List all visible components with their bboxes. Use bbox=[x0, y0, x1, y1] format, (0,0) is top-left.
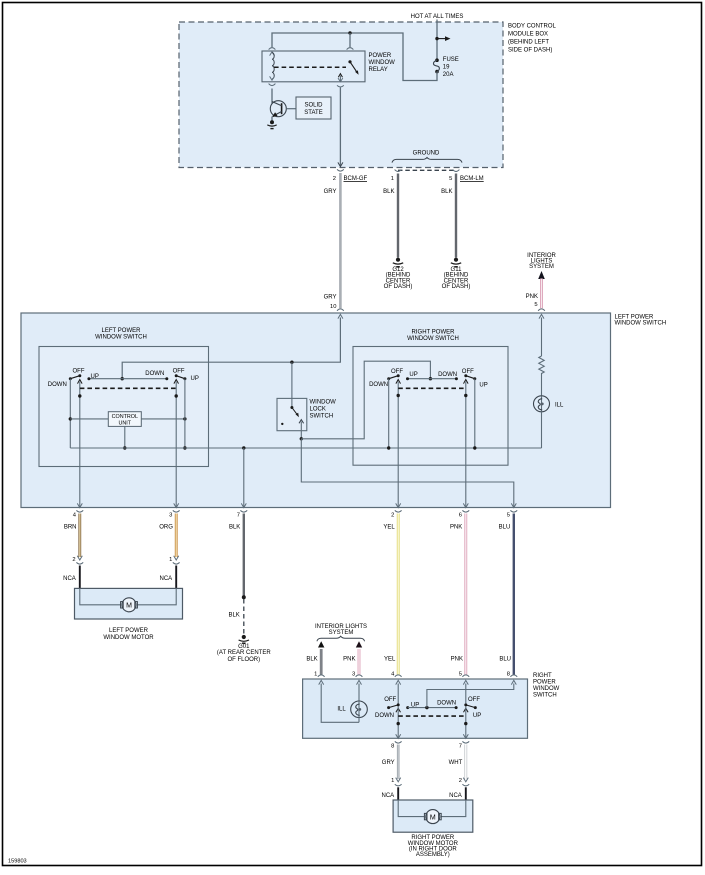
svg-text:1: 1 bbox=[314, 671, 317, 677]
relay coil top connector bbox=[269, 48, 276, 50]
pin 1 entry connector bbox=[318, 675, 325, 677]
label: POWER WINDOW RELAY bbox=[369, 53, 396, 73]
left sub-box: top contact wire UP(L1) to DOWN(L2) bbox=[89, 378, 167, 380]
wire BLK to G11 bbox=[455, 174, 457, 258]
wire NCA to motor bbox=[397, 787, 399, 816]
svg-text:OF DASH): OF DASH) bbox=[384, 284, 413, 290]
svg-text:WINDOW MOTOR: WINDOW MOTOR bbox=[103, 635, 154, 641]
svg-text:DOWN: DOWN bbox=[48, 382, 67, 388]
svg-text:OFF: OFF bbox=[384, 697, 396, 703]
left power window switch assembly box bbox=[21, 313, 611, 508]
svg-text:BLK: BLK bbox=[306, 656, 317, 662]
right sub-box: top contact wire UP(R1) to DOWN(R2) bbox=[408, 378, 457, 380]
svg-text:POWER: POWER bbox=[533, 679, 556, 685]
svg-text:5: 5 bbox=[534, 302, 537, 308]
svg-text:NCA: NCA bbox=[63, 576, 76, 582]
wire BRN pin 4 to left motor pin 2 bbox=[78, 514, 81, 558]
relay mechanical link (dashed) bbox=[274, 66, 346, 68]
svg-text:UP: UP bbox=[191, 376, 199, 382]
svg-text:19: 19 bbox=[443, 65, 450, 71]
svg-text:6: 6 bbox=[459, 512, 462, 518]
junction dot on B-switch top wire bbox=[425, 706, 428, 709]
junction dot below window lock switch bbox=[300, 437, 303, 440]
connector name BCM-GF bbox=[344, 176, 368, 182]
label: FUSE 19 20A bbox=[443, 57, 459, 78]
svg-text:BCM-LM: BCM-LM bbox=[460, 176, 484, 182]
label: LEFT POWER WINDOW SWITCH (sub-box) bbox=[95, 328, 147, 341]
control unit rail left bbox=[70, 418, 108, 420]
wire junction to window lock switch common bbox=[291, 362, 293, 407]
pin 5 entry connector bbox=[462, 675, 469, 677]
wire from fuse to relay top bus bbox=[272, 33, 437, 81]
control unit box bbox=[108, 412, 141, 427]
relay coil bbox=[272, 53, 274, 79]
svg-text:SYSTEM: SYSTEM bbox=[529, 264, 554, 270]
dashed wire segment to G01 bbox=[243, 599, 245, 635]
arrow up PNK to interior lights bbox=[356, 641, 362, 647]
wire pin 1 to lamp return bbox=[321, 684, 359, 723]
svg-text:LEFT POWER: LEFT POWER bbox=[102, 328, 142, 334]
svg-text:OF DASH): OF DASH) bbox=[442, 284, 471, 290]
illumination lamp ILL bbox=[534, 396, 550, 412]
svg-text:G01: G01 bbox=[238, 644, 250, 650]
window lock switch contact and lever bbox=[281, 406, 304, 439]
wire BLK pin 7 to G01 bbox=[243, 514, 245, 597]
svg-text:WINDOW SWITCH: WINDOW SWITCH bbox=[95, 335, 147, 341]
svg-text:PNK: PNK bbox=[526, 294, 538, 300]
svg-text:5: 5 bbox=[449, 176, 452, 182]
svg-text:2: 2 bbox=[459, 778, 462, 784]
svg-text:BODY CONTROL: BODY CONTROL bbox=[508, 24, 557, 30]
power window relay box bbox=[262, 51, 365, 82]
pin 5 exit connector bbox=[511, 503, 516, 507]
BCM ground pins internal dashed bus bbox=[398, 169, 456, 171]
junction dot below B2 common bbox=[464, 722, 467, 725]
svg-text:PNK: PNK bbox=[450, 524, 462, 530]
svg-text:DOWN: DOWN bbox=[145, 371, 164, 377]
svg-text:RIGHT: RIGHT bbox=[533, 673, 552, 679]
svg-text:NCA: NCA bbox=[382, 793, 395, 799]
wire relay common to BCM pin 2 bbox=[339, 88, 341, 167]
svg-text:MODULE BOX: MODULE BOX bbox=[508, 32, 548, 38]
switch L1 (driver left window, left half) bbox=[69, 374, 91, 507]
svg-text:PNK: PNK bbox=[343, 656, 355, 662]
svg-text:GRY: GRY bbox=[324, 295, 337, 301]
svg-text:(BEHIND LEFT: (BEHIND LEFT bbox=[508, 40, 549, 46]
svg-text:BLK: BLK bbox=[441, 189, 452, 195]
pin 10 entry connector at assembly top bbox=[337, 309, 344, 311]
relay switch top contact bbox=[348, 60, 351, 63]
svg-text:YEL: YEL bbox=[383, 524, 395, 530]
junction dot below L1 common bbox=[78, 394, 81, 397]
label: BODY CONTROL MODULE BOX (BEHIND LEFT SIDE OF DASH) bbox=[508, 24, 557, 54]
svg-text:OFF: OFF bbox=[391, 369, 403, 375]
switch B1 (right door, left half) bbox=[387, 703, 409, 738]
wire WHT pin 7 to motor pin 2 bbox=[464, 745, 467, 780]
ground G11 (behind center of dash) bbox=[451, 258, 461, 267]
pin 5 entry connector at assembly top bbox=[538, 309, 545, 311]
motor pin 1 connector bbox=[396, 778, 401, 782]
svg-text:7: 7 bbox=[237, 512, 240, 518]
right power window switch sub-box bbox=[353, 347, 508, 466]
junction dot below R1 common bbox=[397, 394, 400, 397]
ground (internal, BCM) bbox=[267, 120, 276, 128]
svg-text:GRY: GRY bbox=[324, 189, 337, 195]
svg-text:PNK: PNK bbox=[451, 656, 463, 662]
labels switch R1 bbox=[369, 369, 418, 388]
svg-text:5: 5 bbox=[459, 671, 462, 677]
svg-text:LOCK: LOCK bbox=[310, 407, 326, 413]
relay common exit connector at relay box bottom bbox=[338, 78, 343, 82]
motor internal wiring bbox=[80, 588, 176, 604]
svg-text:YEL: YEL bbox=[384, 656, 396, 662]
svg-text:1: 1 bbox=[391, 778, 394, 784]
mechanical link R1-R2 (dashed) bbox=[398, 387, 466, 389]
wire PNK interior lights to pin 3 bbox=[358, 649, 361, 675]
wire UP(R2) contact down to bottom rail bbox=[474, 379, 476, 448]
label: LEFT POWER WINDOW SWITCH (assembly, right side) bbox=[615, 315, 667, 327]
svg-text:WINDOW: WINDOW bbox=[310, 400, 337, 406]
svg-text:10: 10 bbox=[330, 304, 336, 310]
labels switch B2 bbox=[437, 697, 481, 719]
wire UP(L2) contact down to bottom rail bbox=[184, 379, 186, 448]
control unit bottom wire bbox=[124, 426, 126, 448]
illumination resistor bbox=[539, 318, 544, 396]
svg-text:UNIT: UNIT bbox=[119, 421, 132, 427]
pin 8 exit connector (bottom) bbox=[396, 734, 401, 738]
svg-text:BLK: BLK bbox=[383, 189, 394, 195]
relay switch lever (open, angled right) bbox=[350, 62, 357, 73]
relay switch top entry connector bbox=[347, 48, 354, 50]
transistor Q (solid state driver) bbox=[270, 101, 296, 118]
wire lock switch to right sub-box feed bbox=[301, 361, 430, 439]
svg-text:LEFT POWER: LEFT POWER bbox=[109, 628, 149, 634]
labels switch L2 bbox=[145, 369, 199, 383]
junction dot UP(L2) at bottom rail bbox=[183, 446, 186, 449]
pin 2 exit connector bbox=[396, 503, 401, 507]
svg-text:NCA: NCA bbox=[449, 793, 462, 799]
svg-text:5: 5 bbox=[507, 512, 510, 518]
relay coil bottom connector bbox=[270, 76, 275, 80]
svg-text:ASSEMBLY): ASSEMBLY) bbox=[416, 852, 450, 858]
svg-text:UP: UP bbox=[479, 383, 487, 389]
label: RIGHT POWER WINDOW MOTOR (IN RIGHT DOOR ASSEMBLY) bbox=[408, 835, 459, 858]
right power window motor box bbox=[393, 800, 473, 832]
svg-text:RELAY: RELAY bbox=[369, 67, 388, 73]
wire NCA to motor bbox=[465, 787, 467, 816]
pin 7 exit connector (bottom) bbox=[463, 734, 468, 738]
svg-text:1: 1 bbox=[391, 176, 394, 182]
svg-text:159803: 159803 bbox=[8, 859, 27, 865]
svg-text:DOWN: DOWN bbox=[369, 382, 388, 388]
svg-text:8: 8 bbox=[391, 743, 394, 749]
window lock switch box bbox=[277, 398, 307, 430]
pin 3 entry connector bbox=[356, 675, 363, 677]
wire from pin 10 to left switch feed bbox=[122, 318, 340, 379]
svg-text:SIDE OF DASH): SIDE OF DASH) bbox=[508, 48, 552, 54]
wire lock switch down to pin 5 exit bbox=[301, 439, 514, 508]
svg-text:BLU: BLU bbox=[499, 656, 511, 662]
wire PNK pin 6 to right switch pin 5 bbox=[464, 514, 467, 675]
svg-text:8: 8 bbox=[507, 671, 510, 677]
label: WINDOW LOCK SWITCH bbox=[310, 400, 337, 420]
svg-text:WINDOW: WINDOW bbox=[533, 686, 560, 692]
wire GRY pin 8 to motor pin 1 bbox=[397, 745, 400, 780]
pin 8 entry connector bbox=[510, 675, 517, 677]
wire transistor emitter to ground bbox=[271, 117, 273, 122]
wire pin 3 to lamp bbox=[358, 684, 360, 702]
wire lamp bottom to return bbox=[358, 718, 360, 723]
svg-text:RIGHT POWER: RIGHT POWER bbox=[412, 330, 456, 336]
wire rail to pin 7 exit bbox=[243, 448, 245, 508]
svg-text:OFF: OFF bbox=[462, 369, 474, 375]
labels switch R2 bbox=[438, 369, 488, 389]
svg-text:FUSE: FUSE bbox=[443, 57, 459, 63]
body control module box (dashed) bbox=[179, 22, 503, 168]
wire BLK interior lights to pin 1 bbox=[320, 649, 323, 675]
top contact wire UP(B1) to DOWN(B2) bbox=[408, 707, 456, 709]
junction dot below B1 common bbox=[397, 722, 400, 725]
wire relay coil bottom to transistor bbox=[271, 89, 273, 104]
label: RIGHT POWER WINDOW SWITCH bbox=[533, 673, 560, 699]
switch R1 (passenger window, left half) bbox=[387, 374, 409, 507]
wire pin 8 feed to top wire bbox=[427, 684, 514, 708]
left power window motor box bbox=[75, 588, 183, 619]
pin 6 exit connector bbox=[463, 503, 468, 507]
svg-text:BCM-GF: BCM-GF bbox=[344, 176, 368, 182]
svg-text:20A: 20A bbox=[443, 72, 454, 78]
junction dot rail to pin 7 bbox=[242, 446, 245, 449]
svg-text:M: M bbox=[430, 814, 436, 821]
arrow up BLK to interior lights bbox=[318, 641, 324, 647]
switch B2 (right door, right half) bbox=[455, 703, 477, 738]
labels switch B1 bbox=[375, 697, 419, 719]
solid state box bbox=[296, 97, 331, 119]
motor M symbol bbox=[424, 810, 441, 824]
svg-text:UP: UP bbox=[91, 374, 99, 380]
junction dot below R2 common bbox=[464, 394, 467, 397]
mechanical link B1-B2 (dashed) bbox=[398, 715, 466, 717]
svg-text:GROUND: GROUND bbox=[413, 151, 440, 157]
wire BLK to G12 bbox=[397, 174, 399, 258]
svg-text:SYSTEM: SYSTEM bbox=[329, 630, 354, 636]
junction dot above relay switch bbox=[348, 31, 351, 34]
common bottom rail wire bbox=[70, 447, 541, 449]
BCM pin 2 exit connector (BCM-GF) bbox=[338, 162, 343, 166]
junction dot below L2 common bbox=[175, 394, 178, 397]
motor pin 2 connector bbox=[77, 556, 82, 560]
svg-text:M: M bbox=[126, 603, 132, 610]
svg-text:OFF: OFF bbox=[468, 697, 480, 703]
junction dot on left switch top wire bbox=[121, 377, 124, 380]
svg-text:1: 1 bbox=[169, 557, 172, 563]
junction dot DOWN(R1) at bottom rail bbox=[387, 446, 390, 449]
label: RIGHT POWER WINDOW SWITCH (sub-box) bbox=[407, 330, 459, 342]
wire YEL pin 2 to right switch pin 4 bbox=[397, 514, 400, 675]
svg-text:ORG: ORG bbox=[159, 524, 173, 530]
label: LEFT POWER WINDOW MOTOR bbox=[103, 628, 154, 641]
switch R2 (passenger window, right half) bbox=[455, 374, 476, 507]
svg-text:OFF: OFF bbox=[73, 369, 85, 375]
pin 4 exit connector bbox=[77, 503, 82, 507]
svg-text:UP: UP bbox=[409, 372, 417, 378]
wire pin 5 into box bbox=[465, 684, 467, 704]
svg-text:WINDOW SWITCH: WINDOW SWITCH bbox=[407, 336, 459, 342]
junction dot left rail / control rail bbox=[69, 417, 72, 420]
svg-text:2: 2 bbox=[391, 512, 394, 518]
svg-text:SOLID: SOLID bbox=[304, 103, 323, 109]
relay switch common with up arrow bbox=[338, 74, 342, 78]
svg-text:DOWN: DOWN bbox=[438, 372, 457, 378]
pin 4 entry connector bbox=[395, 675, 402, 677]
arrow to interior lights system bbox=[538, 271, 545, 279]
svg-text:BLU: BLU bbox=[499, 524, 511, 530]
wire NCA to motor bbox=[79, 566, 81, 605]
svg-text:OFF: OFF bbox=[173, 369, 185, 375]
svg-text:WINDOW SWITCH: WINDOW SWITCH bbox=[615, 321, 667, 327]
svg-text:SWITCH: SWITCH bbox=[310, 414, 334, 420]
motor M symbol bbox=[121, 598, 138, 612]
pin 7 exit connector bbox=[241, 503, 246, 507]
BCM pin 5 connector (BCM-LM) bbox=[453, 170, 460, 172]
wire lamp to bottom rail bbox=[541, 412, 543, 448]
svg-text:GRY: GRY bbox=[382, 760, 395, 766]
junction dot on hot feed bbox=[435, 37, 438, 40]
fuse 19 20A bbox=[433, 58, 439, 73]
svg-text:POWER: POWER bbox=[369, 53, 392, 59]
wire pin 4 to switch B1 bbox=[397, 684, 399, 705]
svg-text:CONTROL: CONTROL bbox=[112, 414, 138, 420]
brace over interior lights wires bbox=[317, 636, 365, 641]
wire PNK to switch pin 5 bbox=[540, 279, 543, 309]
label: INTERIOR LIGHTS SYSTEM bbox=[315, 624, 367, 636]
junction dot right rail / control rail bbox=[183, 417, 186, 420]
junction dot to window lock switch bbox=[290, 361, 293, 364]
svg-text:3: 3 bbox=[352, 671, 355, 677]
control unit rail right bbox=[141, 418, 185, 420]
wire BLU pin 5 to right switch pin 8 bbox=[513, 514, 515, 675]
wire GRY from BCM pin 2 to switch pin 10 bbox=[339, 173, 342, 308]
svg-text:DOWN: DOWN bbox=[437, 700, 456, 706]
wire ORG pin 3 to left motor pin 1 bbox=[175, 514, 178, 558]
svg-text:2: 2 bbox=[72, 557, 75, 563]
label: CONTROL UNIT bbox=[112, 414, 138, 427]
mechanical link L1-L2 (dashed) bbox=[80, 387, 176, 389]
svg-text:DOWN: DOWN bbox=[375, 713, 394, 719]
ground G01 (at rear center of floor) bbox=[239, 635, 249, 643]
illumination lamp ILL (door switch) bbox=[351, 701, 368, 718]
svg-text:ILL: ILL bbox=[337, 706, 346, 712]
wire DOWN(L1) contact down to control rail bbox=[69, 379, 71, 448]
svg-text:(AT REAR CENTER: (AT REAR CENTER bbox=[217, 650, 271, 656]
svg-text:UP: UP bbox=[473, 713, 481, 719]
wire DOWN(R1) contact down to bottom rail bbox=[388, 379, 390, 448]
motor internal wiring bbox=[398, 800, 466, 817]
junction dot control unit at bottom rail bbox=[123, 446, 126, 449]
svg-text:BRN: BRN bbox=[64, 524, 77, 530]
svg-text:ILL: ILL bbox=[555, 402, 564, 408]
junction dot BLK wire bbox=[242, 595, 246, 599]
switch L2 (driver left window, right half) bbox=[165, 374, 186, 507]
ground G12 (behind center of dash) bbox=[393, 258, 403, 267]
junction dot on right switch top wire bbox=[429, 377, 432, 380]
junction dot UP(R2) at bottom rail bbox=[473, 446, 476, 449]
label: INTERIOR LIGHTS SYSTEM (top right) bbox=[527, 253, 556, 270]
svg-text:BLK: BLK bbox=[229, 524, 240, 530]
svg-text:7: 7 bbox=[459, 743, 462, 749]
left power window switch sub-box bbox=[39, 347, 209, 467]
labels switch L1 bbox=[48, 369, 99, 389]
wire from bus down to relay switch contact bbox=[349, 33, 351, 47]
wire from HOT AT ALL TIMES down to fuse bbox=[436, 20, 438, 61]
BCM pin 1 connector bbox=[395, 170, 402, 172]
svg-text:SWITCH: SWITCH bbox=[533, 692, 557, 698]
right power window switch box bbox=[303, 679, 528, 738]
svg-text:BLK: BLK bbox=[228, 612, 239, 618]
svg-text:3: 3 bbox=[169, 512, 172, 518]
svg-text:WINDOW: WINDOW bbox=[369, 60, 396, 66]
pin 3 exit connector bbox=[174, 503, 179, 507]
svg-text:NCA: NCA bbox=[160, 576, 173, 582]
svg-text:STATE: STATE bbox=[304, 110, 322, 116]
motor pin 1 connector bbox=[174, 556, 179, 560]
svg-text:HOT AT ALL TIMES: HOT AT ALL TIMES bbox=[411, 14, 464, 20]
branch arrow to other circuits bbox=[437, 36, 451, 41]
motor pin 2 connector bbox=[463, 778, 468, 782]
svg-text:OF FLOOR): OF FLOOR) bbox=[227, 657, 260, 663]
svg-text:WHT: WHT bbox=[449, 760, 463, 766]
label: SOLID STATE bbox=[304, 103, 323, 117]
svg-text:2: 2 bbox=[333, 176, 336, 182]
wire NCA to motor bbox=[175, 566, 177, 605]
